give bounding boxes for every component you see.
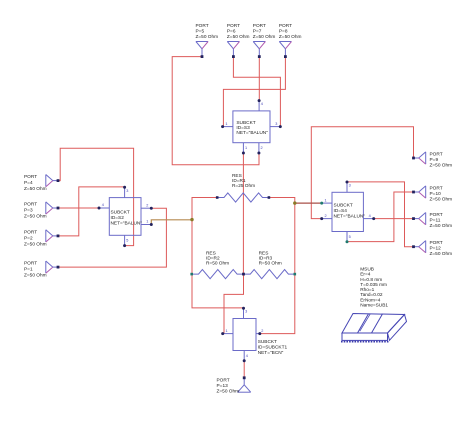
wire P9 to U3 pin2 [311, 127, 413, 219]
wire P1 to U1 pin2 [58, 208, 166, 267]
svg-text:ID=SUBCKT1: ID=SUBCKT1 [258, 345, 288, 351]
svg-text:P=1: P=1 [24, 267, 33, 273]
U4 (SUBCKT1) pin 3 (top) [242, 307, 247, 319]
svg-text:Z=50 Ohm: Z=50 Ohm [279, 34, 302, 40]
svg-text:Z=50 Ohm: Z=50 Ohm [430, 223, 453, 229]
svg-text:P=10: P=10 [430, 191, 442, 197]
port P=6 (top) [227, 42, 239, 57]
wire R1 right to junction B [269, 198, 295, 204]
svg-text:PORT: PORT [227, 23, 240, 29]
svg-text:MSUB: MSUB [360, 267, 374, 273]
svg-text:5: 5 [126, 239, 128, 243]
U1 (balun S2) pin 2 (right) [141, 203, 153, 209]
svg-text:R=50 Ohm: R=50 Ohm [259, 261, 282, 267]
svg-text:ID=S4: ID=S4 [334, 208, 348, 214]
U2 (balun S3) pin 3 (right) [270, 122, 282, 128]
MSUB 3D substrate icon [342, 314, 407, 341]
svg-text:3: 3 [245, 310, 247, 314]
port P=1 (left) [46, 261, 58, 273]
port P=3 (left) [46, 202, 58, 214]
port P=9 (right) [414, 152, 426, 164]
U1 (balun S2) pin 4 (left) [98, 203, 110, 209]
resistor R2 [192, 270, 244, 279]
wire P2 to U1 pin3 [58, 187, 124, 236]
svg-text:2: 2 [325, 214, 327, 218]
svg-text:4: 4 [369, 214, 371, 218]
subckt U1 (balun S2) body [109, 198, 141, 236]
svg-text:Z=50 Ohm: Z=50 Ohm [430, 251, 453, 257]
U2 (balun S3) pin 1 (left) [221, 122, 233, 128]
U2 (balun S3) pin 4 (top) [258, 99, 263, 111]
svg-text:2: 2 [146, 203, 148, 207]
wire P7 to U2 pin4 [258, 57, 260, 101]
svg-text:PORT: PORT [279, 23, 292, 29]
U3 (balun S4) pin 3 (top) [346, 181, 351, 193]
svg-text:PORT: PORT [24, 229, 37, 235]
svg-text:Rho=1: Rho=1 [360, 287, 374, 293]
svg-text:PORT: PORT [217, 378, 230, 384]
svg-text:PORT: PORT [430, 212, 443, 218]
svg-text:PORT: PORT [430, 186, 443, 192]
svg-text:Er=4: Er=4 [360, 272, 371, 278]
svg-text:PORT: PORT [253, 23, 266, 29]
svg-text:Z=50 Ohm: Z=50 Ohm [24, 273, 47, 279]
U1 (balun S2) pin 5 (bottom) [123, 235, 128, 247]
svg-text:PORT: PORT [196, 23, 209, 29]
svg-text:P=6: P=6 [227, 29, 236, 35]
wire junction A up to R1 left [192, 198, 217, 220]
wire U2 bottom-left pin down to R2/R3 node [242, 153, 244, 274]
svg-text:Z=50 Ohm: Z=50 Ohm [430, 197, 453, 203]
svg-text:P=3: P=3 [24, 208, 33, 214]
svg-text:Z=50 Ohm: Z=50 Ohm [24, 241, 47, 247]
wire P6 to U2 pin3 [233, 57, 280, 127]
svg-text:4: 4 [246, 354, 248, 358]
svg-text:SUBCKT: SUBCKT [334, 203, 353, 209]
wire R3 right down to U4 pin2 [261, 274, 295, 334]
svg-text:SUBCKT: SUBCKT [258, 339, 277, 345]
subckt U2 (balun S3) body [233, 111, 270, 143]
svg-text:R=25 Ohm: R=25 Ohm [232, 183, 255, 189]
svg-text:4: 4 [261, 102, 263, 106]
junction B [293, 201, 296, 204]
svg-text:1: 1 [226, 329, 228, 333]
U2 (balun S3) pin 2 (bottom) [257, 143, 262, 155]
svg-text:3: 3 [349, 184, 351, 188]
svg-text:3: 3 [126, 189, 128, 193]
svg-text:Z=50 Ohm: Z=50 Ohm [196, 34, 219, 40]
svg-text:R=50 Ohm: R=50 Ohm [206, 261, 229, 267]
svg-text:1: 1 [325, 198, 327, 202]
port P=10 (right) [414, 186, 426, 198]
U4 (SUBCKT1) pin 2 (right) [256, 329, 263, 335]
svg-text:P=9: P=9 [430, 157, 439, 163]
svg-text:PORT: PORT [24, 202, 37, 208]
svg-text:P=11: P=11 [430, 218, 441, 224]
U3 (balun S4) pin 1 (left) [320, 198, 332, 204]
U3 (balun S4) pin 4 (right) [363, 214, 375, 220]
wire U1 pin1 to junction A (highlighted tan) [151, 220, 192, 225]
svg-text:PORT: PORT [24, 261, 37, 267]
subckt U4 (SUBCKT1) body [233, 319, 256, 351]
wire P3 to U1 pin4 [58, 207, 99, 209]
svg-text:NET="BALUN": NET="BALUN" [236, 130, 268, 136]
svg-text:3: 3 [275, 122, 277, 126]
svg-text:T=0.035 mm: T=0.035 mm [360, 282, 387, 288]
svg-text:Z=50 Ohm: Z=50 Ohm [253, 34, 276, 40]
svg-text:1: 1 [225, 122, 227, 126]
wire junction B down to R3 right [294, 203, 296, 274]
svg-text:NET="BCN": NET="BCN" [258, 350, 284, 356]
junction A [190, 218, 193, 221]
wire P4 to U1 pin5 [58, 148, 134, 245]
svg-text:P=8: P=8 [279, 29, 288, 35]
svg-text:P=5: P=5 [196, 29, 205, 35]
wire R2/R3 node to U4 pin1 [224, 274, 244, 334]
svg-text:Z=50 Ohm: Z=50 Ohm [430, 163, 453, 169]
svg-text:PORT: PORT [24, 174, 37, 180]
svg-text:Z=50 Ohm: Z=50 Ohm [24, 214, 47, 220]
svg-text:4: 4 [102, 203, 104, 207]
svg-text:NET="BALUN": NET="BALUN" [334, 214, 366, 220]
svg-text:PORT: PORT [430, 240, 443, 246]
wire U3 pin3 to P12 [347, 182, 414, 247]
svg-text:Tand=0.02: Tand=0.02 [360, 292, 383, 298]
U4 (SUBCKT1) pin 4 (bottom) [243, 351, 248, 363]
svg-text:PORT: PORT [430, 152, 443, 158]
svg-text:2: 2 [261, 146, 263, 150]
svg-text:Name=SUB1: Name=SUB1 [360, 302, 388, 308]
svg-text:5: 5 [349, 235, 351, 239]
wire U3 pin4 to P11 [373, 218, 414, 220]
port P=12 (right) [414, 241, 426, 253]
wire U3 pin5 to P10 [347, 192, 414, 242]
U1 (balun S2) pin 3 (top) [123, 186, 128, 198]
svg-text:Z=50 Ohm: Z=50 Ohm [227, 34, 250, 40]
U3 (balun S4) pin 2 (left) [320, 214, 332, 220]
svg-text:ErNom=4: ErNom=4 [360, 297, 381, 303]
port P=7 (top) [253, 42, 265, 57]
wire U4 pin4 to P13 [243, 361, 245, 378]
svg-text:P=2: P=2 [24, 235, 33, 241]
svg-text:P=7: P=7 [253, 29, 262, 35]
svg-text:SUBCKT: SUBCKT [111, 210, 130, 216]
svg-text:2: 2 [261, 329, 263, 333]
wire P5 to U2 bottom-right pin [172, 57, 259, 165]
svg-text:1: 1 [146, 220, 148, 224]
U2 (balun S3) pin 1 (bottom) [242, 143, 247, 155]
resistor R3 [244, 270, 295, 279]
port P=2 (left) [46, 230, 58, 242]
port P=13 (bottom) [238, 378, 251, 392]
svg-text:P=12: P=12 [430, 246, 442, 252]
svg-text:ID=S2: ID=S2 [111, 215, 125, 221]
port P=5 (top) [196, 42, 208, 57]
subckt U3 (balun S4) body [332, 192, 363, 231]
svg-text:1: 1 [245, 146, 247, 150]
svg-text:NET="BALUN": NET="BALUN" [111, 221, 143, 227]
wire P8 to U2 pin1 [223, 57, 285, 127]
port P=4 (left) [46, 175, 58, 187]
wire junction A down through R2 left to U4 pin3 [192, 220, 244, 308]
svg-text:P=13: P=13 [217, 383, 229, 389]
svg-text:H=0.8 mm: H=0.8 mm [360, 277, 382, 283]
wire junction B to U3 pin1 (highlighted dark red) [295, 202, 321, 204]
resistor R1 [217, 193, 269, 202]
port P=8 (top) [279, 42, 291, 57]
U3 (balun S4) pin 5 (bottom) [346, 232, 351, 244]
svg-text:Z=50 Ohm: Z=50 Ohm [217, 389, 240, 395]
svg-text:Z=50 Ohm: Z=50 Ohm [24, 186, 47, 192]
U1 (balun S2) pin 1 (right) [141, 220, 153, 226]
U4 (SUBCKT1) pin 1 (left) [221, 329, 233, 335]
port P=11 (right) [414, 213, 426, 225]
svg-text:P=4: P=4 [24, 180, 33, 186]
